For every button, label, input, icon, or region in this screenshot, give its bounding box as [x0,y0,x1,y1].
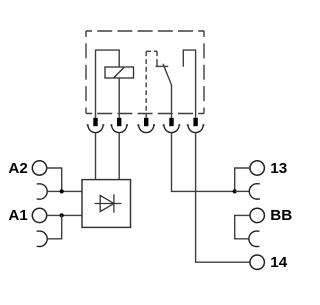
wire coil bottom to pin2 [118,78,120,118]
input protection block (box) [82,180,131,228]
NC path dashed right vertical [156,51,158,63]
terminal 14 circle [250,255,264,269]
wire pin2 to input block [118,133,120,180]
wire 13 to node [235,168,250,191]
svg-text:BB: BB [270,207,292,224]
wire A1 hook to junction [47,215,61,238]
NC seat tick [156,63,158,66]
svg-text:14: 14 [270,254,287,271]
relay outline dashed box K1 left edge [85,31,87,114]
wire A1 into block [47,214,82,216]
terminal A2 lower contact hook [37,184,48,199]
pin 5 plug contact [187,118,205,133]
relay outline dashed box K1 bottom edge [86,113,204,115]
relay outline dashed box K1 top edge [86,30,204,32]
pin 2 plug contact [110,118,128,133]
wire BB bracket to BB hook [235,215,250,238]
svg-text:13: 13 [270,160,287,177]
svg-text:A2: A2 [8,160,27,177]
terminal A1 lower contact hook [37,231,48,246]
wire node to 13 hook [235,190,250,192]
wire pin5 down to terminal 14 [196,133,251,263]
terminal A1 circle [32,208,46,222]
NC path dashed top horizontal [146,50,157,52]
wire coil loop pin1 up and over to coil top [96,50,120,118]
wire pin4 down and right to terminal 13 node [172,133,235,192]
svg-text:A1: A1 [8,207,28,224]
terminal A2 circle [32,161,46,175]
junction 13 node [233,189,237,193]
mechanical linkage / NC path dashed from pin3 (vertical) [145,51,147,118]
NC fixed contact seat [156,65,169,67]
pin 3 plug contact [137,118,155,133]
junction A2 node [60,189,64,193]
NO fixed contact hook to pin5 [183,50,195,118]
pin 4 plug contact [163,118,181,133]
wire A2 hook row into block [47,190,82,192]
terminal BB lower contact hook [249,231,260,246]
terminal BB circle [250,208,264,222]
contact blade (moving contact) [163,64,172,118]
diode D1 [95,194,122,212]
pin 1 plug contact [87,118,105,133]
terminal 13 circle [250,161,264,175]
wire pin1 to input block [95,133,97,180]
junction A1 node [60,213,64,217]
relay outline dashed box K1 right edge [203,31,205,114]
relay coil K1 (rectangle with diagonal) [105,67,134,78]
wire A2 to bus [47,168,62,191]
terminal 13 lower contact hook [249,184,260,199]
